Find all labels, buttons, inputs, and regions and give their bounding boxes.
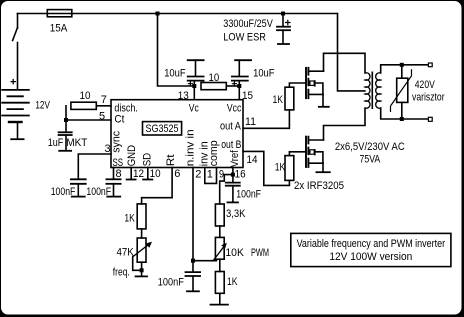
svg-text:out B: out B [221, 139, 241, 151]
svg-text:2x6,5V/230V AC: 2x6,5V/230V AC [335, 141, 405, 153]
wire: 47K to ground [141, 262, 143, 275]
svg-text:3,3K: 3,3K [226, 208, 246, 220]
wire: secondary bottom to output [381, 108, 429, 119]
svg-text:3: 3 [105, 143, 111, 155]
svg-text:MKT: MKT [66, 137, 87, 149]
svg-text:Ct: Ct [114, 114, 124, 126]
svg-text:Variable frequency and PWM inv: Variable frequency and PWM inverter [297, 238, 446, 250]
svg-text:1uF: 1uF [48, 137, 64, 149]
potentiometer 47K [137, 238, 146, 262]
svg-text:6: 6 [174, 168, 180, 180]
capacitor 100nF (Vref) [225, 183, 241, 202]
wire: upper drain to transformer top [324, 53, 366, 73]
resistor 1K (Rt) [137, 204, 146, 229]
wire: pin 16 stub [232, 168, 234, 182]
wire: pin 15 stub [238, 86, 240, 100]
svg-text:47K: 47K [117, 247, 135, 259]
IC U1 SG3525 body [111, 100, 243, 168]
resistor 10 (Vc-Vcc) [201, 83, 226, 90]
wire: resistor to Vcc node [226, 85, 239, 87]
svg-text:12: 12 [133, 168, 144, 180]
capacitor 100nF (SS) [106, 179, 122, 196]
svg-text:1K: 1K [227, 276, 238, 288]
capacitor 10uF (left) [187, 60, 205, 86]
ground: 47K [135, 275, 148, 277]
potentiometer 10K PWM [215, 237, 224, 259]
svg-text:100nF: 100nF [86, 186, 111, 198]
wire: resistor left to pin5 node [65, 106, 67, 120]
svg-text:10uF: 10uF [164, 67, 186, 79]
node: Ct [64, 118, 68, 122]
node: pin2 / wiper [191, 259, 195, 263]
ground: battery [10, 138, 24, 140]
wire: out A pin 11 [243, 110, 289, 128]
svg-text:GND: GND [126, 145, 138, 166]
wire: 1K to gate (lower) [289, 152, 305, 156]
capacitor 100nF (pin2) [185, 261, 201, 291]
wire: switch lower lead to battery [17, 43, 19, 90]
wire: pin 7 [96, 105, 111, 107]
label + of 3300uF [285, 20, 291, 26]
svg-text:10K: 10K [225, 247, 244, 259]
wire: 1K to gate (upper) [289, 83, 305, 87]
battery 12V plates [1, 90, 29, 122]
wire: upper source to ground [322, 94, 324, 106]
svg-text:10: 10 [80, 90, 91, 102]
svg-text:comp: comp [208, 140, 220, 166]
svg-text:8: 8 [116, 168, 122, 180]
wire: out B pin 14 [243, 151, 289, 185]
transistor Q2 IRF3205 (lower) [306, 136, 324, 168]
node: varistor bottom [400, 117, 404, 121]
wire: 10K to 1K [219, 259, 221, 271]
svg-text:100nF: 100nF [236, 188, 261, 200]
wire: wiper of 10K [193, 260, 217, 262]
label SG3525 [143, 122, 182, 135]
transformer T1 primary winding [365, 73, 370, 108]
terminal: output top [428, 63, 432, 67]
wire: lower drain to transformer bottom [324, 108, 366, 140]
resistor 10 (disch) [71, 102, 96, 109]
wire: 3,3K to 10K [219, 226, 221, 237]
svg-text:100nF: 100nF [158, 277, 184, 289]
transistor Q1 IRF3205 (upper) [306, 67, 324, 99]
wire: switch upper lead [17, 14, 19, 29]
varistor 420V [391, 65, 412, 119]
capacitor 100nF (sync) [70, 179, 87, 196]
ground: bottom chain [210, 304, 229, 306]
svg-text:75VA: 75VA [360, 153, 381, 165]
switch S1 blade [13, 28, 18, 41]
potentiometer 47K wiper arrow [133, 242, 152, 257]
svg-text:11: 11 [245, 116, 256, 128]
svg-text:SD: SD [142, 153, 154, 167]
wire: pin 1 to pin 9 link [205, 168, 217, 184]
svg-text:12V 100W version: 12V 100W version [329, 251, 412, 263]
ground: pin2 cap [186, 290, 200, 292]
wire: 1K to ground [219, 293, 221, 304]
svg-text:16: 16 [235, 169, 246, 181]
wire: secondary top to output [381, 65, 429, 73]
svg-text:sync: sync [111, 130, 123, 152]
wire: top +12V rail [18, 13, 338, 15]
wire: pin 5 [66, 119, 111, 121]
svg-text:PWM: PWM [251, 247, 269, 259]
svg-text:5: 5 [99, 111, 105, 123]
wire: 47K wiper to bottom [133, 257, 142, 271]
resistor 1K (upper gate) [285, 87, 294, 110]
svg-text:freq.: freq. [113, 266, 130, 278]
svg-text:disch.: disch. [114, 102, 137, 114]
svg-text:3300uF/25V: 3300uF/25V [223, 18, 273, 30]
wire: rail down to Vc node [158, 14, 195, 87]
resistor 1K (bottom) [215, 272, 224, 294]
svg-text:7: 7 [101, 94, 107, 106]
svg-text:1K: 1K [273, 94, 284, 106]
terminal: output bottom [428, 117, 432, 121]
svg-text:12V: 12V [35, 100, 50, 112]
ground: upper MOSFET [318, 106, 330, 108]
ground: pin 10 [142, 179, 153, 181]
ground: SS cap [106, 196, 121, 198]
ground: 3300uF [277, 43, 290, 45]
caption box [291, 233, 451, 266]
wire: 1K to 47K [141, 229, 143, 238]
ground: sync cap [71, 196, 86, 198]
node: Vcc (pin15) [237, 84, 241, 88]
fuse F1 [47, 10, 72, 17]
wire: battery negative stub [17, 124, 19, 139]
svg-text:2x IRF3205: 2x IRF3205 [294, 180, 344, 192]
wire: pin 2 down [192, 168, 194, 261]
node: varistor top [400, 63, 404, 67]
resistor 1K (lower gate) [285, 156, 294, 181]
wire: Vref to 3.3K (zigzag) [220, 175, 233, 204]
ground: lower MOSFET [316, 171, 331, 173]
svg-text:Rt: Rt [165, 154, 177, 166]
svg-text:2: 2 [195, 169, 201, 181]
svg-text:420V: 420V [415, 79, 436, 91]
node: 47K bottom [140, 268, 144, 272]
svg-text:10: 10 [150, 168, 161, 180]
battery plus sign [11, 79, 17, 85]
svg-text:100nF: 100nF [51, 186, 76, 198]
svg-text:1K: 1K [275, 161, 286, 173]
svg-text:Vcc: Vcc [227, 102, 242, 114]
svg-text:15A: 15A [50, 23, 68, 35]
svg-text:10uF: 10uF [253, 67, 275, 79]
wire: pin 8 stub [113, 168, 115, 179]
svg-text:LOW ESR: LOW ESR [223, 31, 266, 43]
ground: Vref cap [227, 201, 239, 203]
svg-text:1: 1 [207, 169, 213, 181]
wire: pin 6 Rt to 1K [142, 168, 173, 204]
svg-text:SG3525: SG3525 [146, 123, 179, 135]
resistor 3,3K [215, 204, 224, 226]
wire: pin 10 stub [147, 168, 149, 179]
capacitor 3300uF/25V [276, 14, 291, 44]
svg-text:varisztor: varisztor [412, 91, 445, 103]
capacitor 1uF MKT [58, 120, 73, 150]
svg-text:14: 14 [247, 154, 258, 166]
svg-text:out A: out A [220, 121, 241, 133]
node: Vref [231, 173, 235, 177]
wire: pin 13 stub [193, 86, 195, 100]
transformer T1 secondary winding [376, 73, 381, 108]
node: junction top rail to 3300uF [281, 12, 285, 16]
node: junction top rail to Vc branch [156, 12, 160, 16]
svg-text:Vc: Vc [189, 102, 199, 114]
potentiometer 10K wiper arrow [213, 243, 227, 261]
wire: center tap feed [338, 14, 365, 91]
svg-text:10: 10 [209, 72, 220, 84]
svg-text:9: 9 [219, 169, 224, 181]
ground: pin 12 [126, 179, 137, 181]
capacitor 10uF (right) [231, 60, 252, 86]
svg-text:1K: 1K [124, 213, 135, 225]
transformer core [371, 72, 373, 110]
wire: pin 3 sync [78, 154, 111, 179]
node: Vc (pin13) [192, 84, 196, 88]
svg-text:Vref: Vref [229, 149, 241, 167]
wire: pin 12 stub [130, 168, 132, 179]
wire: lower source to ground [322, 163, 324, 171]
svg-text:n.inv in: n.inv in [185, 129, 197, 166]
ground: 1uF [58, 150, 72, 152]
